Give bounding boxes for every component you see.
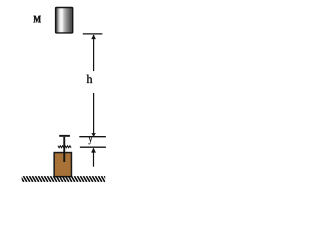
arrowhead down (bottom of h line) [91, 133, 95, 137]
ground hatch band [20, 176, 107, 182]
label M [34, 16, 41, 23]
arrowhead up (top of h line) [91, 34, 96, 39]
label h [87, 75, 93, 83]
nail head T-bar [59, 135, 70, 137]
mass cylinder M [56, 8, 73, 33]
label y [89, 137, 93, 144]
extension line 1 (nail head level) [79, 136, 106, 138]
extension line 2 (block top level) [80, 146, 106, 148]
extension line at cylinder bottom [83, 33, 103, 35]
squiggle (break mark) [58, 146, 71, 148]
nail stem [63, 137, 65, 162]
tail of y dimension [93, 152, 95, 167]
wooden block [54, 153, 71, 177]
arrowhead up (below line 2) [91, 148, 96, 153]
dimension line h upper segment [93, 35, 95, 71]
dimension line h lower segment [93, 93, 95, 135]
